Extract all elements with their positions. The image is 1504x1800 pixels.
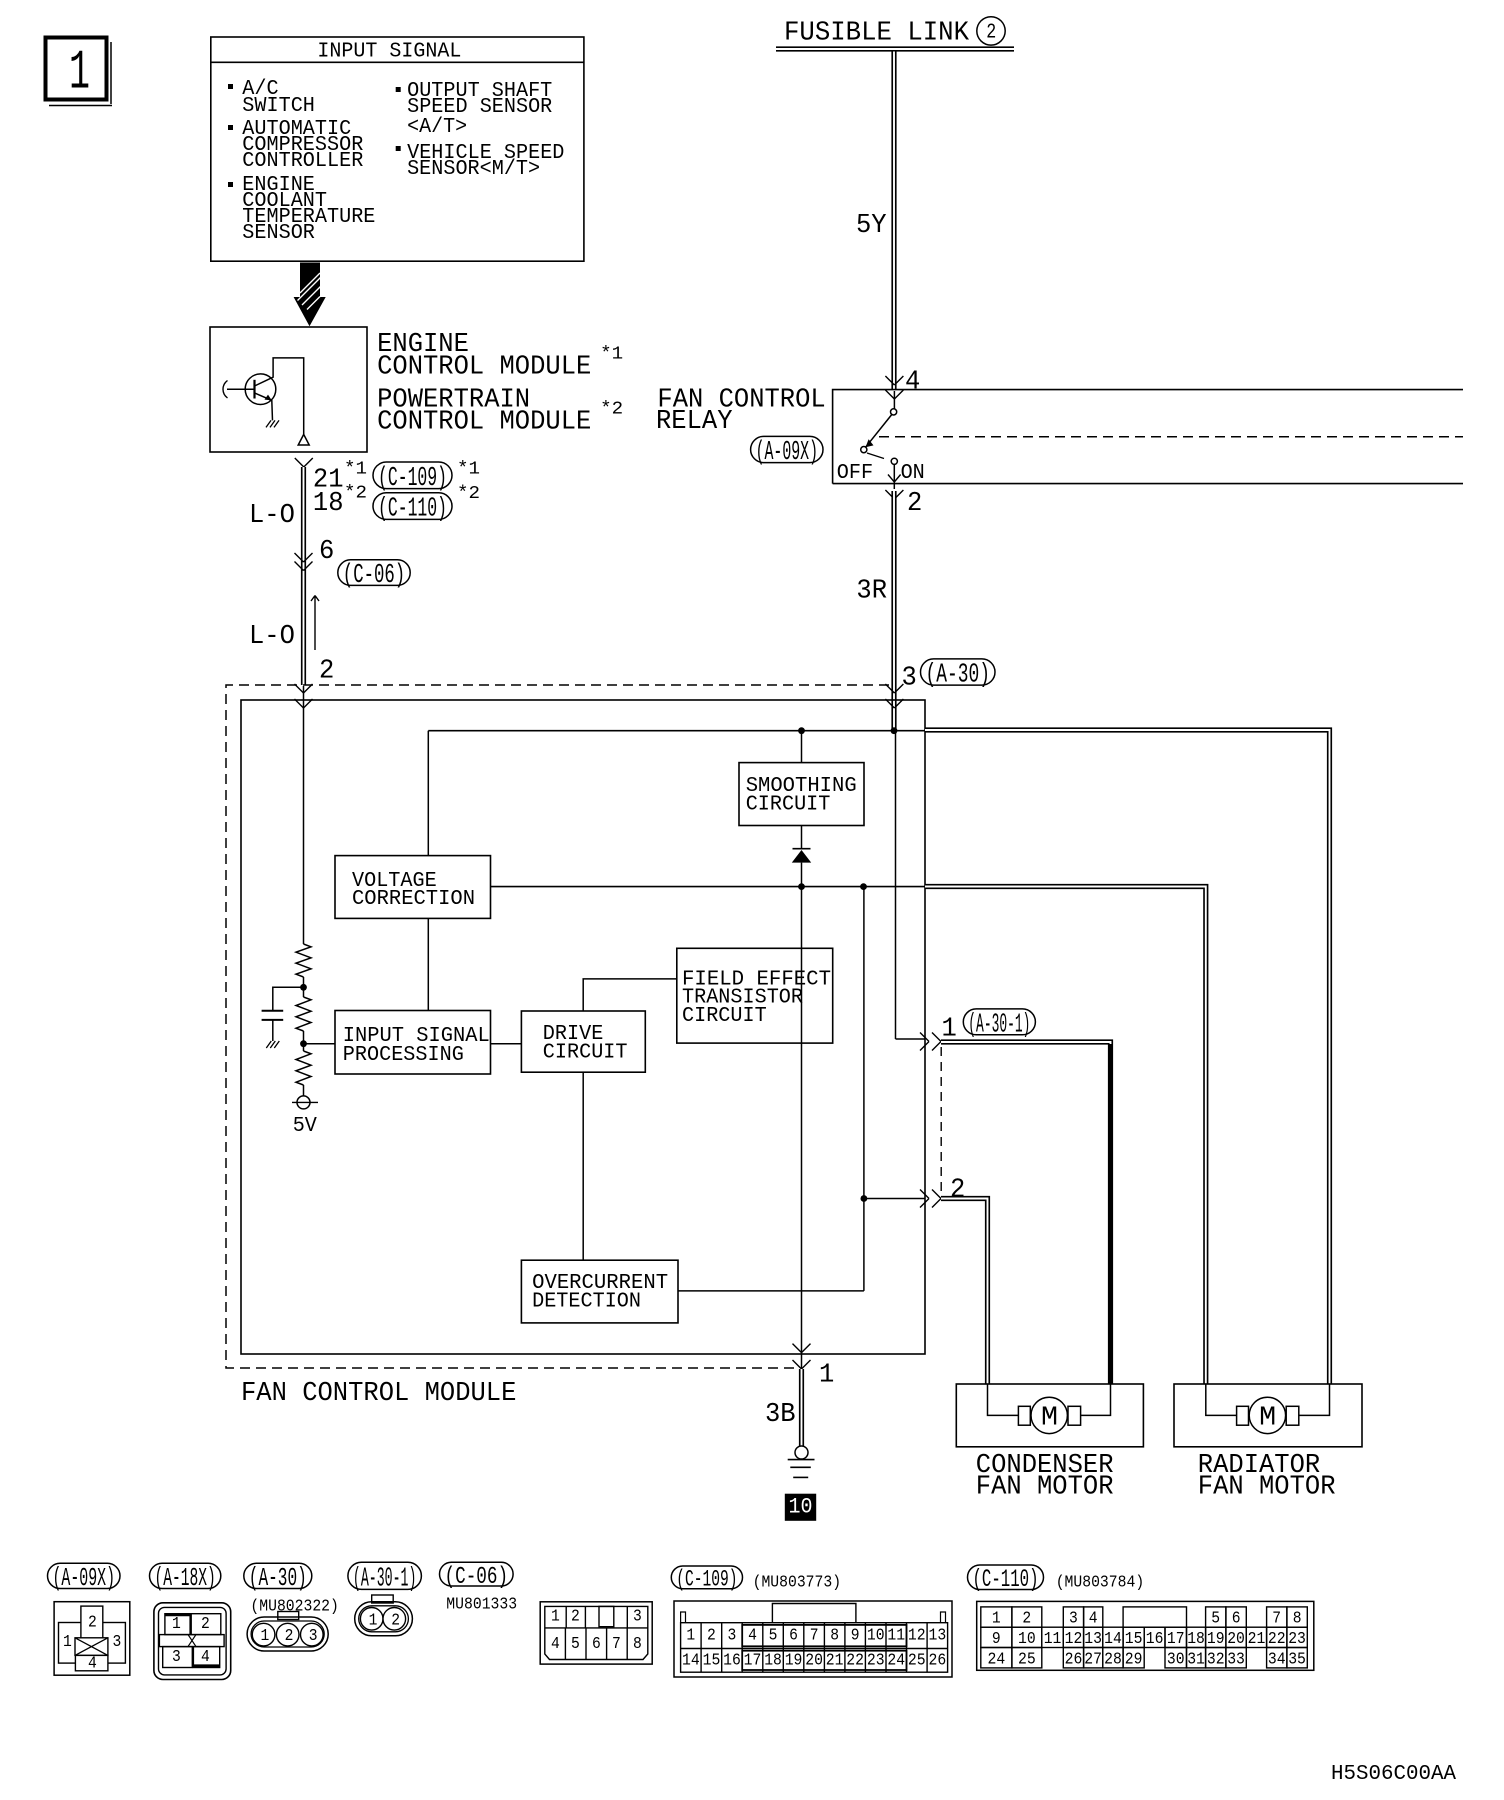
node top bus pin3 [891,727,898,734]
svg-text:1: 1 [819,1361,834,1391]
relay OFF contact [861,447,867,453]
condenser fan motor box [956,1384,1143,1447]
connector C-06 label capsule [440,1562,514,1586]
svg-text:(MU803784): (MU803784) [1056,1573,1145,1592]
wire R3 to 5V [303,1085,305,1096]
bullet vehicle speed sensor [396,146,401,151]
fan control module dashed outline [226,685,889,1368]
svg-text:13: 13 [1084,1629,1102,1648]
svg-text:32: 32 [1207,1649,1225,1668]
module exit marks ground pin1 [793,1344,811,1353]
connector A-30-1 capsule [963,1009,1035,1035]
svg-text:12: 12 [1065,1629,1083,1648]
svg-text:6: 6 [592,1634,601,1653]
svg-text:2: 2 [907,489,922,519]
svg-text:4: 4 [551,1634,560,1653]
smoothing circuit feed wire [801,731,803,763]
svg-text:(A-30-1): (A-30-1) [968,1010,1030,1040]
svg-text:CIRCUIT: CIRCUIT [543,1041,628,1064]
module entry marks pin3 [885,684,903,693]
svg-text:1: 1 [69,41,90,105]
svg-text:(C-109): (C-109) [676,1568,737,1594]
svg-text:2: 2 [319,657,334,687]
svg-text:1: 1 [369,1610,378,1629]
voltage correction box [335,856,491,919]
transistor Q1 [245,374,276,405]
relay exit mark pin2 [885,490,903,499]
smoothing circuit box [739,763,864,826]
svg-text:35: 35 [1288,1649,1306,1668]
svg-text:22: 22 [846,1651,864,1670]
heavy wire mid bus to radiator fan [925,887,1206,1385]
node mid bus main [798,883,805,890]
connector C-06 capsule [338,560,410,586]
connector A-30-1 label capsule [348,1562,422,1589]
svg-text:5Y: 5Y [856,211,887,241]
bullet engine coolant temperature sensor [228,182,233,187]
svg-text:(MU802322): (MU802322) [250,1597,339,1616]
svg-text:9: 9 [851,1626,860,1645]
svg-text:CORRECTION: CORRECTION [352,888,475,911]
svg-text:30: 30 [1167,1649,1185,1668]
svg-text:3: 3 [728,1626,737,1645]
capacitor C1 [262,1010,284,1012]
svg-text:19: 19 [785,1651,803,1670]
svg-text:RELAY: RELAY [656,407,733,437]
wire smoothing to clamp [801,826,803,850]
heavy wire A-30-1 pin1 to condenser fan [941,1042,1111,1384]
svg-text:14: 14 [1104,1629,1122,1648]
svg-text:2: 2 [88,1613,97,1632]
wire drive circuit to FET gate [583,979,677,1011]
wire voltage correction to ISP [427,918,429,1010]
svg-text:(A-30-1): (A-30-1) [353,1564,417,1594]
connector A-30 label capsule [244,1563,312,1588]
svg-text:6: 6 [1232,1609,1241,1628]
svg-text:FAN MOTOR: FAN MOTOR [1198,1473,1336,1503]
svg-text:15: 15 [1125,1629,1143,1648]
transistor emitter ground [266,420,279,427]
base input hook [223,381,228,399]
svg-text:FUSIBLE LINK: FUSIBLE LINK [784,19,970,49]
svg-text:15: 15 [703,1651,721,1670]
wire L-O from ECM to fan control module [301,467,306,685]
condenser motor wiring [988,1384,1019,1415]
svg-text:INPUT SIGNAL: INPUT SIGNAL [317,41,461,64]
svg-text:(A-09X): (A-09X) [756,438,818,468]
connector A-09X pinout [54,1602,130,1676]
svg-text:(C-110): (C-110) [378,495,447,525]
svg-text:(MU803773): (MU803773) [753,1573,842,1592]
svg-text:H5S06C00AA: H5S06C00AA [1331,1763,1456,1786]
connector C-110 pinout [977,1601,1314,1670]
sense vertical wire [863,887,865,1291]
svg-text:L-O: L-O [249,622,295,652]
capacitor ground wire [272,1020,274,1041]
svg-text:21: 21 [826,1651,844,1670]
ground symbol [788,1459,815,1461]
svg-text:3R: 3R [856,576,887,606]
field effect transistor circuit box [677,948,833,1043]
node ISP junction [300,1040,307,1047]
svg-text:SENSOR<M/T>: SENSOR<M/T> [407,158,540,181]
svg-text:8: 8 [830,1626,839,1645]
svg-text:5: 5 [769,1626,778,1645]
condenser motor brushes [1018,1406,1030,1425]
svg-text:OFF: OFF [837,462,873,485]
bullet automatic compressor controller [228,125,233,130]
relay throw arrow [893,465,895,490]
svg-text:20: 20 [805,1651,823,1670]
connector A-30-1 dashed link [940,1047,942,1192]
connector C-109 highlighted cells [742,1625,906,1646]
svg-text:(C-109): (C-109) [378,464,447,494]
wire overcurrent to sense line [678,1290,864,1292]
input signal processing box [335,1011,491,1075]
svg-text:2: 2 [285,1626,294,1645]
svg-text:4: 4 [1089,1609,1098,1628]
module entry marks pin2 [295,684,313,693]
svg-text:CIRCUIT: CIRCUIT [746,794,831,817]
5V supply symbol [292,1101,318,1103]
svg-text:SENSOR: SENSOR [242,222,315,245]
fan control relay box [833,390,1463,484]
svg-text:28: 28 [1104,1649,1122,1668]
svg-text:(A-30): (A-30) [249,1563,307,1593]
input-signal box [211,37,584,261]
svg-text:3: 3 [309,1626,318,1645]
svg-text:9: 9 [992,1629,1001,1648]
wire module input to resistor chain [303,686,305,944]
svg-text:11: 11 [887,1626,905,1645]
svg-text:22: 22 [1268,1629,1286,1648]
svg-text:19: 19 [1207,1629,1225,1648]
connector A-18X pinout [154,1603,231,1680]
wire 5Y from fusible link to relay [891,52,896,390]
svg-text:14: 14 [682,1651,700,1670]
svg-text:18: 18 [764,1651,782,1670]
svg-text:23: 23 [867,1651,885,1670]
svg-text:M: M [1259,1404,1276,1434]
svg-text:11: 11 [1044,1629,1062,1648]
svg-text:*1: *1 [457,460,480,480]
svg-text:21: 21 [1248,1629,1266,1648]
svg-text:26: 26 [929,1651,947,1670]
svg-text:CONTROL MODULE: CONTROL MODULE [377,352,591,382]
fusible link circled 2 [977,17,1005,45]
direction arrow up [311,596,319,651]
connector A-30 capsule [921,659,996,685]
connector A-09X capsule [751,436,823,462]
wire node to input signal processing [304,1043,336,1045]
svg-text:6: 6 [789,1626,798,1645]
connector A-09X label capsule [48,1563,121,1588]
inline connector C-06 marks [295,553,313,562]
wire pin3 feed down [895,731,897,1039]
svg-text:12: 12 [908,1626,926,1645]
relay entry marks pin4 [885,376,903,385]
connector A-18X label capsule [150,1563,221,1588]
resistor R1 [296,944,311,977]
relay switch arm [866,415,892,448]
svg-text:31: 31 [1187,1649,1205,1668]
radiator motor M2 [1249,1397,1285,1433]
wire R1 to node [303,977,305,997]
svg-text:3: 3 [1069,1609,1078,1628]
svg-text:7: 7 [1272,1609,1281,1628]
svg-text:(C-06): (C-06) [445,1564,509,1591]
bullet A/C switch [228,84,233,89]
wire 3B [799,1369,804,1446]
emitter lead [255,393,273,421]
svg-text:8: 8 [1293,1609,1302,1628]
condenser motor M1 [1031,1397,1067,1433]
output triangle [298,434,309,445]
svg-text:16: 16 [1146,1629,1164,1648]
svg-text:4: 4 [748,1626,757,1645]
svg-text:5: 5 [1211,1609,1220,1628]
svg-text:8: 8 [633,1634,642,1653]
svg-text:FAN MOTOR: FAN MOTOR [976,1473,1114,1503]
svg-text:<A/T>: <A/T> [407,116,467,139]
svg-text:16: 16 [723,1651,741,1670]
connector C-110 capsule [373,493,452,520]
wire drive circuit to overcurrent detection [582,1072,584,1260]
svg-text:2: 2 [986,22,996,45]
svg-text:25: 25 [1018,1649,1036,1668]
overcurrent detection box [521,1260,678,1323]
svg-text:1: 1 [261,1626,270,1645]
capacitor C1 branch wire [273,987,304,1010]
svg-text:*2: *2 [344,484,367,504]
wire ISP to drive circuit [491,1043,522,1045]
svg-text:10: 10 [867,1626,885,1645]
main FET power line [801,887,803,1369]
clamp diode symbol [793,848,811,850]
collector lead [255,358,304,435]
radiator motor brushes [1237,1406,1249,1425]
heavy wire top bus to radiator fan [925,730,1330,1384]
svg-text:17: 17 [744,1651,762,1670]
node capacitor junction [300,984,307,991]
module exit marks pin1 [920,1033,929,1051]
drive circuit box [521,1011,645,1072]
connector C-109 capsule [373,462,452,489]
svg-text:(C-06): (C-06) [343,560,405,590]
svg-text:3: 3 [633,1607,642,1626]
ECM pin exit mark [295,458,313,467]
svg-text:33: 33 [1227,1649,1245,1668]
svg-text:2: 2 [707,1626,716,1645]
module top bus wire [428,730,925,732]
capacitor ground [266,1041,279,1048]
connector C-06 pinout [540,1602,652,1664]
connector A-30 pinout [278,1612,299,1620]
svg-text:7: 7 [810,1626,819,1645]
svg-text:13: 13 [929,1626,947,1645]
svg-text:17: 17 [1167,1629,1185,1648]
heavy wire A-30-1 pin2 to condenser fan [941,1199,988,1385]
svg-text:L-O: L-O [249,501,295,531]
svg-text:2: 2 [1022,1609,1031,1628]
svg-text:*1: *1 [600,345,623,365]
module exit marks pin2 [920,1190,929,1208]
node sense pin2 [861,1195,868,1202]
svg-text:6: 6 [319,537,334,567]
svg-text:(A-09X): (A-09X) [53,1563,116,1593]
relay ON contact [891,458,897,464]
radiator fan motor box [1174,1384,1362,1447]
ground eyelet [795,1446,808,1459]
svg-text:1: 1 [172,1614,181,1633]
node mid bus sense [860,883,867,890]
svg-text:26: 26 [1065,1649,1083,1668]
svg-text:3: 3 [113,1632,122,1651]
svg-text:(A-18X): (A-18X) [155,1563,216,1593]
svg-text:2: 2 [571,1607,580,1626]
ground reference 10 box [785,1494,816,1521]
svg-text:SWITCH: SWITCH [242,95,315,118]
svg-text:DETECTION: DETECTION [532,1291,641,1314]
svg-text:10: 10 [1018,1629,1036,1648]
svg-text:29: 29 [1125,1649,1143,1668]
connector C-110 label capsule [968,1565,1044,1590]
wire 3R relay to module [891,491,896,730]
svg-text:*2: *2 [600,400,623,420]
svg-text:3B: 3B [765,1400,796,1430]
svg-text:PROCESSING: PROCESSING [343,1044,464,1067]
resistor R2 [296,997,311,1031]
ECM/PCM box U1 [210,327,367,452]
bullet output shaft speed sensor [396,87,401,92]
svg-text:7: 7 [612,1634,621,1653]
svg-text:24: 24 [887,1651,905,1670]
svg-text:ON: ON [901,462,925,485]
resistor R3 [296,1051,311,1085]
svg-text:18: 18 [313,489,344,519]
svg-text:2: 2 [201,1614,210,1633]
svg-text:1: 1 [63,1632,72,1651]
wire R2 to node [303,1031,305,1051]
svg-text:MU801333: MU801333 [446,1594,517,1613]
svg-text:1: 1 [551,1607,560,1626]
svg-text:25: 25 [908,1651,926,1670]
fan control module inner box [241,700,925,1354]
svg-text:5V: 5V [293,1115,318,1138]
svg-text:27: 27 [1084,1649,1102,1668]
svg-text:5: 5 [571,1634,580,1653]
svg-text:34: 34 [1268,1649,1286,1668]
node top bus smoothing [798,727,805,734]
svg-text:1: 1 [686,1626,695,1645]
wire pin2 to module edge [864,1198,925,1200]
wire top bus to voltage correction [427,731,429,856]
svg-text:*1: *1 [344,460,367,480]
relay common contact [893,391,895,409]
svg-text:3: 3 [902,663,917,693]
wire clamp to mid bus [801,863,803,887]
svg-text:23: 23 [1288,1629,1306,1648]
input-signal arrow [294,263,326,327]
svg-text:20: 20 [1227,1629,1245,1648]
fusible link bus bars [776,46,1014,48]
wire to A-30-1 pin1 [896,1038,926,1040]
svg-text:4: 4 [88,1654,97,1673]
relay coil dashed link [879,436,1463,438]
svg-text:(A-30): (A-30) [926,661,991,691]
svg-text:CIRCUIT: CIRCUIT [682,1005,767,1028]
svg-text:CONTROL MODULE: CONTROL MODULE [377,408,591,438]
connector C-109 pinout [674,1601,952,1677]
svg-text:*2: *2 [457,484,480,504]
module mid bus wire [491,886,926,888]
svg-text:M: M [1041,1404,1058,1434]
svg-text:CONTROLLER: CONTROLLER [242,150,363,173]
page number 1 box [46,38,107,100]
svg-text:18: 18 [1187,1629,1205,1648]
svg-text:4: 4 [201,1647,210,1666]
svg-text:1: 1 [992,1609,1001,1628]
svg-text:3: 3 [172,1647,181,1666]
svg-text:2: 2 [391,1610,400,1629]
connector C-109 label capsule [671,1566,742,1589]
svg-text:10: 10 [789,1495,813,1520]
svg-text:FAN CONTROL MODULE: FAN CONTROL MODULE [241,1379,516,1409]
svg-text:(C-110): (C-110) [973,1565,1039,1594]
svg-text:4: 4 [905,368,920,398]
connector A-30-1 pinout [372,1595,394,1603]
radiator motor wiring [1206,1384,1237,1415]
svg-text:24: 24 [988,1649,1006,1668]
